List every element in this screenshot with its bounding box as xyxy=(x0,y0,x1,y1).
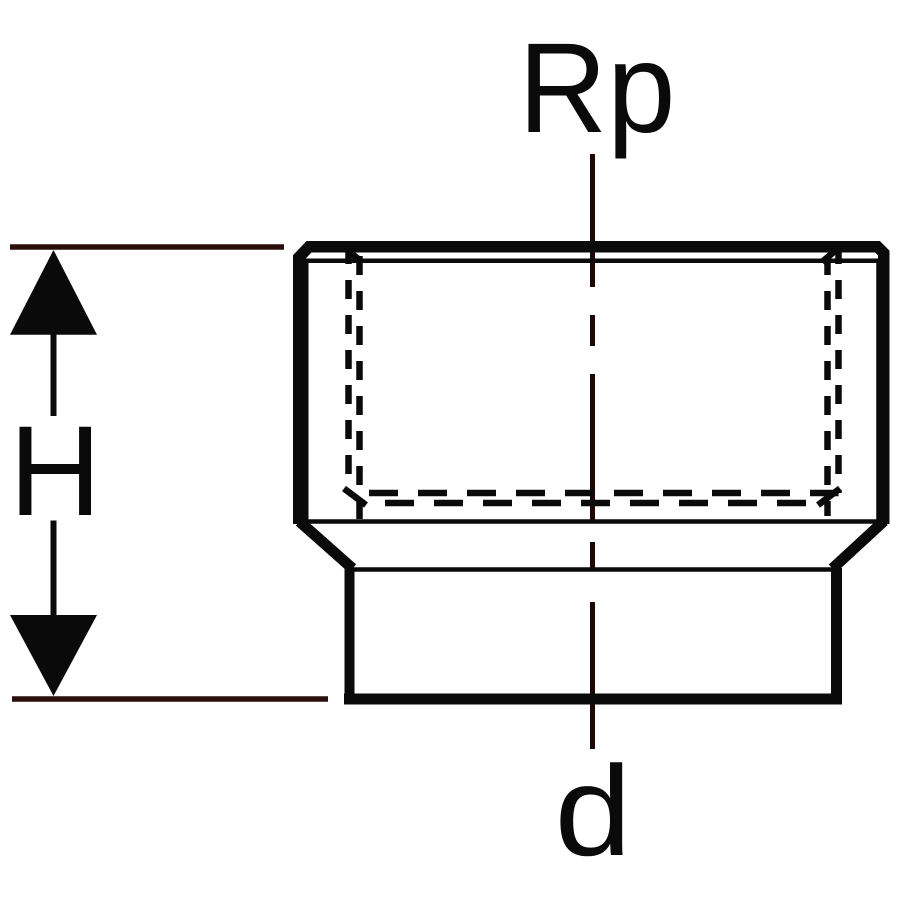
svg-text:d: d xyxy=(555,740,632,883)
svg-text:Rp: Rp xyxy=(518,16,675,160)
